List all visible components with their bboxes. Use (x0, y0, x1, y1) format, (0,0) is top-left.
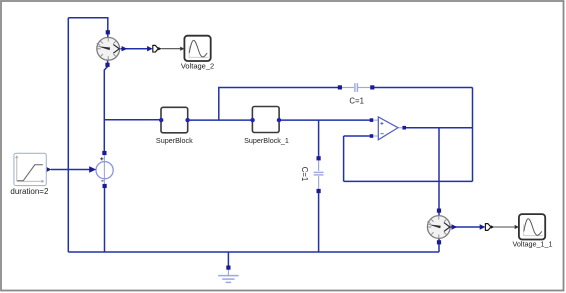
arrow into scope Voltage_2 (180, 47, 184, 51)
voltage source internal line (103, 155, 105, 184)
SuperBlock (156, 107, 193, 145)
pin sensor V1 bottom (105, 63, 109, 67)
voltage sensor V2 (gauge) (427, 216, 450, 239)
arrow into source (89, 166, 96, 173)
link arrowheads (navy) (46, 46, 485, 230)
wire cap C1 right to right column (374, 87, 472, 89)
wire left column (67, 18, 69, 252)
pin cap C1 left (338, 85, 342, 89)
ground (218, 269, 238, 282)
wire ground stub (227, 252, 229, 266)
pin source top (102, 151, 106, 155)
wire bottom bus (68, 251, 439, 253)
capacitor C2 (vertical) (314, 160, 324, 191)
pin source bottom (103, 184, 107, 188)
pin sensor V2 top (437, 209, 441, 213)
source plus sign (100, 157, 103, 160)
wire node A to SuperBlock input (104, 119, 160, 121)
wire sensor V1 output (121, 48, 151, 50)
pin ground (226, 266, 230, 270)
wire sensor V1 bottom to node A (104, 60, 107, 151)
voltage source circle (96, 162, 113, 179)
pin sensor V1 top (106, 30, 110, 34)
wire output drop to sensor V2 (438, 128, 440, 209)
wire sensor V2 output (451, 226, 483, 228)
voltage sensor V1 (gauge) (97, 37, 120, 60)
wire riser to top cap (219, 88, 338, 121)
pin op-amp minus (370, 134, 374, 138)
wire ramp to source (51, 169, 91, 171)
wire top-left corner to sensor V1 top (68, 18, 108, 38)
svg-text:duration=2: duration=2 (10, 187, 49, 196)
port symbol 2 (485, 224, 491, 231)
ramp output port arrow (46, 167, 52, 172)
svg-text:SuperBlock_1: SuperBlock_1 (244, 136, 289, 145)
wire cap C2 bottom to bus (318, 193, 320, 252)
svg-text:C=1: C=1 (349, 96, 364, 105)
svg-text:SuperBlock: SuperBlock (156, 136, 193, 145)
wire right column vertical (472, 88, 474, 182)
wire to op-amp minus (344, 135, 370, 137)
port symbol 1 (153, 45, 159, 52)
pin cap C2 top (317, 156, 321, 160)
wire source bottom pin to bus (104, 186, 106, 252)
capacitor C1 (top, horizontal) (342, 83, 370, 92)
pins (connector squares) (102, 30, 441, 270)
SuperBlock_1 (244, 107, 289, 146)
ramp source block (10, 153, 49, 196)
pin cap C2 bottom (317, 189, 321, 193)
svg-text:Voltage_2: Voltage_2 (181, 62, 214, 71)
wire node B drop to cap C2 (318, 120, 320, 156)
wire feedback bottom (344, 180, 473, 182)
pin sensor V2 bottom (437, 240, 441, 244)
wire op-amp output (406, 127, 473, 129)
arrow into scope Voltage_1_1 (515, 225, 519, 229)
op-amp U1 (374, 117, 403, 140)
svg-text:Voltage_1_1: Voltage_1_1 (513, 239, 553, 248)
svg-text:C=1: C=1 (300, 167, 309, 182)
wire feedback left vertical (343, 136, 345, 181)
scope block Voltage_2 (181, 36, 214, 71)
arrow before port 2 (480, 224, 486, 229)
pin op-amp plus (370, 118, 374, 122)
source minus sign (101, 180, 103, 182)
pin op-amp output (402, 126, 406, 130)
wire sensor V2 top pin to circle (438, 213, 440, 217)
arrow after sensor V2 (452, 224, 458, 229)
arrow after sensor V1 (122, 46, 128, 51)
scope block Voltage_1_1 (513, 214, 553, 248)
gray wire port1 to scope Voltage_2 (162, 48, 182, 50)
gray wire port2 to scope Voltage_1_1 (494, 226, 515, 228)
wire sensor V2 bottom pin to bus (438, 238, 440, 252)
pin cap C1 right (370, 85, 374, 89)
wire SuperBlock to SuperBlock_1 (188, 119, 253, 121)
wire SuperBlock_1 to op-amp plus (281, 119, 370, 121)
arrow before port 1 (147, 46, 153, 51)
